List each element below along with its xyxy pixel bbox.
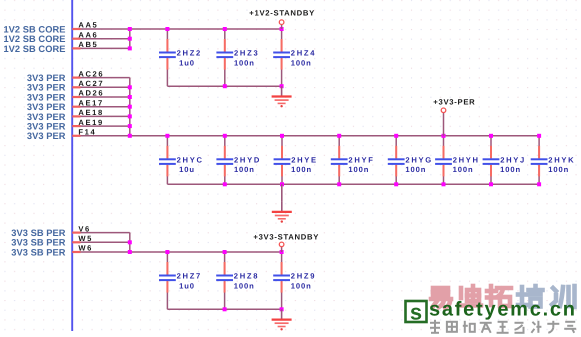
wire pin AE18	[72, 115, 130, 117]
junction bottom bus row2 at (443.5)	[442, 182, 446, 186]
svg-text:2HYG: 2HYG	[405, 156, 432, 165]
power symbol +3V3-PER	[441, 108, 446, 113]
svg-text:AC26: AC26	[78, 69, 104, 78]
svg-text:100n: 100n	[291, 165, 312, 174]
wire pin AA5 to junction column	[72, 28, 281, 30]
wire pin AD26	[72, 96, 130, 98]
pin stub F14	[72, 135, 80, 137]
svg-text:100n: 100n	[234, 281, 255, 290]
svg-text:1u0: 1u0	[179, 281, 195, 290]
capacitor 2HZ3	[216, 29, 233, 86]
pin stub AE18	[72, 115, 80, 117]
svg-text:2HZ9: 2HZ9	[291, 272, 316, 281]
power wire +3V3-PER	[443, 113, 445, 136]
svg-text:1u0: 1u0	[179, 58, 195, 67]
svg-text:+3V3-STANDBY: +3V3-STANDBY	[253, 233, 319, 242]
svg-text:2HZ7: 2HZ7	[177, 272, 202, 281]
junction top bus row2 at (339.2)	[337, 134, 341, 138]
capacitor 2HYD	[216, 136, 233, 185]
svg-text:2HYC: 2HYC	[177, 156, 204, 165]
svg-text:10u: 10u	[179, 165, 195, 174]
svg-text:safetyemc.cn: safetyemc.cn	[429, 298, 577, 320]
svg-text:2HZ2: 2HZ2	[177, 49, 202, 58]
capacitor 2HYF	[331, 136, 348, 185]
capacitor 2HZ8	[216, 252, 233, 309]
pin stub AA5	[72, 28, 80, 30]
wire pin AC26	[72, 77, 130, 79]
capacitor 2HYH	[435, 136, 452, 185]
power symbol +3V3-STANDBY	[279, 242, 284, 247]
junction top bus row2 at (224.8)	[223, 134, 227, 138]
capacitor 2HYJ	[483, 136, 500, 185]
svg-text:F14: F14	[78, 128, 96, 137]
junction bottom bus row2 at (282.0)	[280, 182, 284, 186]
svg-text:2HYD: 2HYD	[234, 156, 261, 165]
svg-text:3V3 PER: 3V3 PER	[27, 122, 66, 132]
junction at (130,29.0)	[128, 27, 132, 31]
ground (row3, below 2HZ9)	[272, 309, 292, 330]
junction at (130,135.8)	[128, 134, 132, 138]
capacitor 2HYC	[159, 136, 176, 185]
junction bottom bus row2 at (491.0)	[489, 182, 493, 186]
pin stub AC27	[72, 86, 80, 88]
svg-text:3V3 SB PER: 3V3 SB PER	[11, 247, 65, 257]
junction top bus row2 at (539.1)	[537, 134, 541, 138]
pin stub W5	[72, 241, 80, 243]
capacitor 2HZ9	[273, 252, 290, 309]
svg-text:s: s	[410, 299, 422, 324]
wire bottom bus row1	[167, 85, 281, 87]
junction bottom bus row2 at (339.2)	[337, 182, 341, 186]
wire pin W6	[72, 251, 281, 253]
svg-text:2HZ3: 2HZ3	[234, 49, 259, 58]
wire vertical junction column row3	[129, 233, 131, 252]
power wire +3V3-STANDBY	[281, 247, 283, 252]
svg-text:2HYJ: 2HYJ	[500, 156, 526, 165]
ground (row1, below 2HZ4)	[272, 86, 292, 107]
junction at (167.4,29.0)	[165, 27, 169, 31]
svg-text:2HZ4: 2HZ4	[291, 49, 316, 58]
capacitor 2HZ2	[159, 29, 176, 86]
wire pin AE19	[72, 125, 130, 127]
junction bottom bus row2 at (224.8)	[223, 182, 227, 186]
svg-text:AE17: AE17	[78, 98, 103, 107]
junction at (130,252.0)	[128, 250, 132, 254]
pin stub AA6	[72, 38, 80, 40]
svg-text:100n: 100n	[234, 165, 255, 174]
svg-text:100n: 100n	[291, 281, 312, 290]
svg-text:AD26: AD26	[78, 89, 104, 98]
svg-text:3V3 PER: 3V3 PER	[27, 102, 66, 112]
pin stub AC26	[72, 76, 80, 78]
svg-text:3V3 PER: 3V3 PER	[27, 131, 66, 141]
junction at (130,106.7)	[128, 105, 132, 109]
svg-text:1V2 SB CORE: 1V2 SB CORE	[3, 24, 65, 34]
svg-text:100n: 100n	[291, 58, 312, 67]
capacitor 2HYG	[388, 136, 405, 185]
capacitor 2HYE	[274, 136, 291, 185]
junction top bus row2 at (443.5)	[442, 134, 446, 138]
junction at (130,38.7)	[128, 37, 132, 41]
svg-text:3V3 PER: 3V3 PER	[27, 83, 66, 93]
wire vertical junction column row2	[129, 78, 131, 136]
junction bottom bus row1 at (281.6)	[280, 84, 284, 88]
junction at (130,126.1)	[128, 124, 132, 128]
wire bottom bus row2	[167, 183, 539, 185]
svg-text:100n: 100n	[548, 165, 569, 174]
svg-text:AE19: AE19	[78, 118, 103, 127]
ground lead row2	[281, 184, 283, 201]
junction top bus row2 at (167.4)	[165, 134, 169, 138]
svg-text:3V3 PER: 3V3 PER	[27, 73, 66, 83]
svg-text:100n: 100n	[500, 165, 521, 174]
wire pin AE17	[72, 106, 130, 108]
svg-text:+3V3-PER: +3V3-PER	[433, 97, 475, 106]
junction top bus row2 at (282.0)	[280, 134, 284, 138]
svg-text:AC27: AC27	[78, 79, 104, 88]
junction at (130,116.4)	[128, 114, 132, 118]
junction at (224.8,29.0)	[223, 27, 227, 31]
junction bottom bus row2 at (396.2)	[394, 182, 398, 186]
junction at (281.6,29.0)	[280, 27, 284, 31]
svg-text:2HYE: 2HYE	[291, 156, 318, 165]
bus line (left vertical blue net bus)	[71, 0, 73, 331]
capacitor 2HZ7	[159, 252, 176, 309]
junction at (130,97.0)	[128, 95, 132, 99]
svg-text:2HYK: 2HYK	[548, 156, 575, 165]
junction top bus row3 at (167.4)	[165, 250, 169, 254]
svg-text:W6: W6	[78, 244, 93, 253]
svg-text:100n: 100n	[234, 58, 255, 67]
watermark big text 易迪拓培训	[431, 288, 451, 308]
svg-text:2HYH: 2HYH	[453, 156, 480, 165]
svg-text:3V3 PER: 3V3 PER	[27, 112, 66, 122]
svg-text:AA6: AA6	[78, 30, 98, 39]
pin stub AE17	[72, 106, 80, 108]
svg-text:AE18: AE18	[78, 108, 103, 117]
svg-text:W5: W5	[78, 234, 93, 243]
svg-text:100n: 100n	[453, 165, 474, 174]
junction bottom bus row3 at (281.6)	[280, 307, 284, 311]
wire bottom bus row3	[167, 308, 281, 310]
svg-text:3V3 SB PER: 3V3 SB PER	[11, 228, 65, 238]
capacitor 2HYK	[531, 136, 548, 185]
svg-text:3V3 SB PER: 3V3 SB PER	[11, 238, 65, 248]
power wire +1V2-STANDBY	[281, 24, 283, 29]
svg-text:V6: V6	[78, 224, 91, 233]
pin stub V6	[72, 232, 80, 234]
svg-text:100n: 100n	[405, 165, 426, 174]
junction at (130,48.4)	[128, 46, 132, 50]
wire pin AC27	[72, 86, 130, 88]
pin stub AE19	[72, 125, 80, 127]
ground (row2, below 2HYE)	[272, 202, 292, 223]
junction bottom bus row2 at (539.1)	[537, 182, 541, 186]
pin stub W6	[72, 251, 80, 253]
junction at (130,242.3)	[128, 240, 132, 244]
junction bottom bus row3 at (224.6)	[223, 307, 227, 311]
wire pin F14	[72, 135, 539, 137]
wire pin AB5 to junction column	[72, 47, 130, 49]
svg-text:AA5: AA5	[78, 21, 98, 30]
capacitor 2HZ4	[273, 29, 290, 86]
junction bottom bus row1 at (224.8)	[223, 84, 227, 88]
pin stub AD26	[72, 96, 80, 98]
svg-text:100n: 100n	[348, 165, 369, 174]
junction top bus row2 at (491.0)	[489, 134, 493, 138]
wire pin V6	[72, 232, 130, 234]
watermark small text 射频和天线设计专家	[430, 320, 440, 333]
svg-text:2HZ8: 2HZ8	[234, 272, 259, 281]
wire vertical junction column row1	[129, 29, 131, 48]
junction top bus row3 at (224.6)	[223, 250, 227, 254]
junction top bus row3 at (281.6)	[280, 250, 284, 254]
power symbol +1V2-STANDBY	[279, 20, 284, 25]
svg-text:1V2 SB CORE: 1V2 SB CORE	[3, 34, 65, 44]
svg-text:2HYF: 2HYF	[348, 156, 374, 165]
watermark logo box S	[406, 299, 427, 324]
svg-text:AB5: AB5	[78, 40, 98, 49]
wire pin W5	[72, 241, 130, 243]
svg-text:+1V2-STANDBY: +1V2-STANDBY	[249, 8, 315, 17]
wire pin AA6 to junction column	[72, 38, 130, 40]
svg-text:1V2 SB CORE: 1V2 SB CORE	[3, 44, 65, 54]
svg-text:3V3 PER: 3V3 PER	[27, 92, 66, 102]
pin stub AB5	[72, 47, 80, 49]
junction top bus row2 at (396.2)	[394, 134, 398, 138]
junction at (130,87.3)	[128, 85, 132, 89]
